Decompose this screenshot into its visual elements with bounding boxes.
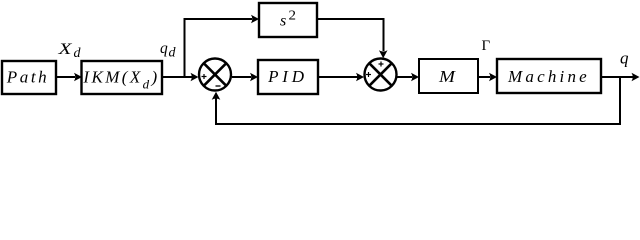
- wire J2 to M: [397, 73, 419, 82]
- summing junction J1: [199, 59, 231, 91]
- sign plus J2 left: [366, 72, 371, 77]
- feedback wire bottom run: [215, 123, 621, 125]
- feedback wire up into J1: [212, 92, 221, 125]
- block PID: [258, 60, 318, 94]
- feedback wire down from output: [619, 77, 621, 124]
- wire Path to IKM: [56, 73, 82, 82]
- wire M to Machine: [478, 73, 497, 82]
- wire J1 to PID: [232, 73, 258, 82]
- output wire q: [601, 73, 640, 82]
- svg-text:q: q: [620, 49, 629, 68]
- block IKM(X_d): [82, 61, 163, 94]
- block Machine: [497, 59, 601, 93]
- sign plus J1 left: [202, 74, 207, 79]
- svg-text:PID: PID: [267, 67, 308, 86]
- block s^2: [259, 3, 317, 37]
- svg-text:Path: Path: [6, 68, 50, 87]
- block Path: [2, 61, 56, 94]
- wire PID to junction J2: [318, 73, 364, 82]
- node label q_d: [160, 40, 177, 61]
- wire branch q_d up to top row: [184, 19, 186, 77]
- svg-text:d: d: [169, 46, 177, 61]
- svg-text:q: q: [160, 40, 168, 57]
- svg-text:X: X: [57, 41, 73, 58]
- block M: [419, 59, 478, 93]
- summing junction J2: [365, 59, 397, 91]
- svg-text:d: d: [74, 46, 82, 61]
- svg-text:Machine: Machine: [507, 67, 590, 86]
- sign plus J2 top: [379, 62, 384, 67]
- node label X_d: [57, 41, 81, 61]
- wire IKM to junction J1: [162, 73, 199, 82]
- wire top row to s2 block: [184, 15, 260, 24]
- sign minus J1 bottom: [216, 85, 221, 87]
- svg-text:M: M: [438, 67, 457, 86]
- svg-text:s: s: [280, 13, 286, 30]
- svg-text:2: 2: [289, 9, 297, 24]
- wire s2 to junction J2 (right then down): [317, 19, 388, 58]
- svg-text:Γ: Γ: [482, 38, 491, 54]
